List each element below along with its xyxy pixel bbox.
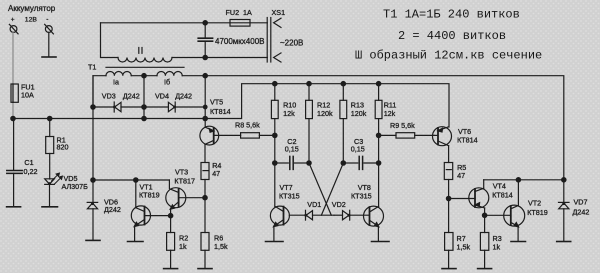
resistor R3 1k (480, 215, 488, 268)
transformer T1 primary Ib (157, 72, 182, 76)
node VT2 collector (516, 178, 520, 182)
transistor VT8 КТ315 (364, 206, 384, 241)
svg-text:Аккумулятор: Аккумулятор (8, 4, 56, 13)
svg-text:+: + (11, 17, 15, 24)
chassis bar (battery minus) (42, 56, 56, 58)
svg-text:1,5k: 1,5k (457, 242, 471, 251)
ground (VD7) (557, 241, 571, 243)
diode VD2 (334, 210, 369, 220)
svg-text:КТ315: КТ315 (351, 192, 372, 201)
resistor R5 47 (444, 163, 452, 199)
terminal X1 (+) (9, 24, 18, 34)
svg-text:4700мкх400В: 4700мкх400В (215, 37, 264, 46)
node bus center tap (142, 116, 146, 120)
wire primary left end (93, 76, 106, 107)
fuse FU1 10A (11, 84, 18, 102)
node VT1 collector (134, 178, 138, 182)
svg-text:12В: 12В (25, 17, 38, 24)
node primary right (203, 74, 207, 78)
svg-text:120k: 120k (351, 109, 367, 118)
transformer T1 secondary II (118, 58, 172, 63)
node feed R11 (376, 82, 380, 86)
svg-text:47: 47 (212, 169, 220, 178)
capacitor 4700mk x 400V (198, 23, 212, 58)
diode VD6 Д242 (87, 180, 98, 240)
transistor VT3 КТ817 (166, 180, 205, 216)
node VT4 emitter / VT2 base (482, 213, 486, 217)
svg-text:~220В: ~220В (280, 39, 303, 48)
node cap top (203, 21, 207, 25)
svg-text:VD3: VD3 (102, 91, 116, 100)
ground (VD5) (42, 206, 58, 208)
svg-text:Д242: Д242 (104, 205, 121, 214)
svg-text:АЛ307Б: АЛ307Б (62, 182, 89, 191)
resistor R7 1,5k (445, 199, 453, 269)
svg-text:КТ315: КТ315 (279, 192, 300, 201)
resistor R9 5,6k (379, 133, 434, 138)
battery label Аккумулятор (8, 4, 56, 24)
svg-text:R9 5,6k: R9 5,6k (390, 121, 415, 130)
ground (R6) (198, 268, 212, 270)
svg-text:Ш образный 12см.кв сечение: Ш образный 12см.кв сечение (355, 49, 542, 63)
svg-text:120k: 120k (317, 109, 333, 118)
svg-text:КТ814: КТ814 (457, 135, 478, 144)
svg-text:0,22: 0,22 (24, 167, 38, 176)
svg-text:КТ819: КТ819 (139, 191, 160, 200)
svg-text:Т1: Т1 (88, 63, 96, 72)
node R5/R7/VT4 base (446, 196, 450, 200)
node bus VT5 emitter (203, 116, 207, 120)
capacitor C3 0,15 (343, 156, 378, 169)
fuse FU2 1A (230, 20, 250, 27)
svg-text:Iб: Iб (164, 78, 170, 87)
diode VD1 (289, 210, 334, 220)
transistor VT6 КТ814 (433, 127, 452, 163)
LED VD5 АЛ307Б (45, 173, 63, 206)
svg-text:VT2: VT2 (528, 199, 541, 208)
ground (VD6) (86, 239, 100, 241)
transistor VT5 КТ814 (200, 126, 241, 162)
node cap bottom (203, 55, 207, 59)
svg-text:XS1: XS1 (272, 8, 286, 17)
resistor R6 1,5k (201, 198, 209, 269)
svg-text:0,15: 0,15 (351, 145, 365, 154)
svg-text:Iа: Iа (113, 78, 119, 87)
transistor VT1 КТ819 (131, 180, 170, 241)
resistor R2 1k (167, 216, 175, 269)
transformer T1 primary Ia (106, 72, 131, 76)
transistor VT7 КТ315 (270, 206, 289, 241)
wire VT4/VT2/VD7 collector rail y179.8 (484, 179, 564, 181)
wire VT1/VT3 collector rail y180 (93, 179, 169, 181)
svg-text:КТ814: КТ814 (210, 107, 231, 116)
svg-text:10А: 10А (21, 91, 34, 100)
svg-text:47: 47 (457, 171, 465, 180)
ground (VT7) (266, 241, 284, 243)
diode VD7 Д242 (559, 180, 570, 242)
node feed R10 (273, 82, 277, 86)
node feed R13 (341, 82, 345, 86)
wire center tap down to bus (143, 76, 145, 119)
connector XS1 (267, 18, 281, 63)
svg-text:FU2: FU2 (226, 8, 240, 17)
svg-text:Д242: Д242 (573, 208, 590, 217)
ground (R3) (478, 268, 492, 270)
resistor R11 12k (375, 84, 382, 207)
wire center tap (131, 75, 157, 77)
capacitor C1 0,22 (7, 119, 22, 207)
wire top loop y22.8 (101, 22, 268, 24)
svg-text:VT3: VT3 (175, 168, 188, 177)
transistor VT2 КТ819 (504, 180, 525, 242)
svg-text:VT4: VT4 (493, 182, 506, 191)
svg-text:0,15: 0,15 (285, 145, 299, 154)
ground (R2) (164, 268, 178, 270)
ground (VT2) (511, 241, 526, 243)
node feed R12 (307, 82, 311, 86)
svg-text:VT8: VT8 (358, 183, 371, 192)
svg-text:Д242: Д242 (175, 91, 192, 100)
svg-text:VT5: VT5 (210, 98, 223, 107)
node VD7 top (562, 178, 566, 182)
wire crossover R13 to VD1 (321, 163, 343, 215)
svg-text:Д242: Д242 (123, 91, 140, 100)
diode VD3 Д242 (93, 102, 144, 112)
svg-text:С1: С1 (24, 158, 33, 167)
node VD6 top (91, 178, 95, 182)
ground (C1) (7, 206, 21, 208)
ground (VT8) (372, 241, 390, 243)
title text (355, 8, 542, 63)
svg-text:12k: 12k (283, 109, 295, 118)
node bus FU1 (11, 116, 15, 120)
node R8 / R10 rail (273, 133, 277, 137)
resistor R13 120k (340, 84, 347, 163)
wire VT4 emitter to VT2 base (485, 214, 511, 216)
svg-text:R8 5,6k: R8 5,6k (235, 121, 260, 130)
node R9 / R11 rail (376, 133, 380, 137)
svg-text:1А: 1А (243, 8, 252, 17)
svg-text:КТ819: КТ819 (527, 208, 548, 217)
svg-text:VD2: VD2 (332, 200, 346, 209)
svg-text:VD7: VD7 (574, 198, 588, 207)
svg-text:2 = 4400 витков: 2 = 4400 витков (398, 29, 506, 43)
wire corner left x100.5 (101, 23, 119, 58)
capacitor C2 0,15 (275, 156, 309, 169)
diode VD4 Д242 (144, 102, 205, 112)
resistor R10 12k (271, 84, 278, 207)
resistor R1 820 (46, 119, 54, 180)
ground (R7) (442, 268, 456, 270)
svg-text:КТ814: КТ814 (492, 191, 513, 200)
svg-text:1,5k: 1,5k (214, 242, 228, 251)
node VT3 emitter / VT1 base (168, 214, 172, 218)
node VD3 cathode / VT1 rail (91, 105, 95, 109)
node diode anodes center (142, 105, 146, 109)
svg-text:1k: 1k (179, 242, 187, 251)
wire II right lead (172, 57, 267, 59)
wire primary right end long top wire (182, 76, 564, 180)
terminal X2 (-) (45, 24, 54, 34)
svg-text:VD4: VD4 (155, 91, 169, 100)
wire crossover R12 to VD2 (309, 163, 331, 215)
wire left end down to VT1 collector rail (92, 76, 94, 180)
svg-text:VD1: VD1 (307, 200, 321, 209)
svg-text:КТ817: КТ817 (174, 177, 195, 186)
node C2 left (273, 161, 277, 165)
node R4/R6/VT3 base (203, 196, 207, 200)
transistor VT4 КТ814 (449, 180, 489, 216)
resistor R12 120k (306, 84, 313, 163)
node diode row right (203, 105, 207, 109)
svg-text:Т1 1А=1Б 240 витков: Т1 1А=1Б 240 витков (383, 8, 520, 22)
node C2 right / R12 (307, 161, 311, 165)
node C3 right / R11 (376, 161, 380, 165)
resistor R4 47 (201, 163, 209, 198)
wire + terminal to FU1 (12, 33, 14, 119)
node C3 left / R13 (341, 161, 345, 165)
svg-text:12k: 12k (384, 109, 396, 118)
node primary center tap (142, 74, 146, 78)
node bus R1 (48, 116, 52, 120)
wire - terminal down (48, 33, 50, 57)
transformer core (106, 66, 184, 68)
resistor R8 5,6k (241, 133, 275, 138)
svg-text:820: 820 (57, 143, 69, 152)
wire +12V bus (13, 84, 449, 127)
ground (VT1) (128, 241, 144, 243)
wire right end down to VT5 emitter (204, 76, 206, 128)
svg-text:1k: 1k (493, 242, 501, 251)
svg-text:-: - (46, 16, 48, 23)
